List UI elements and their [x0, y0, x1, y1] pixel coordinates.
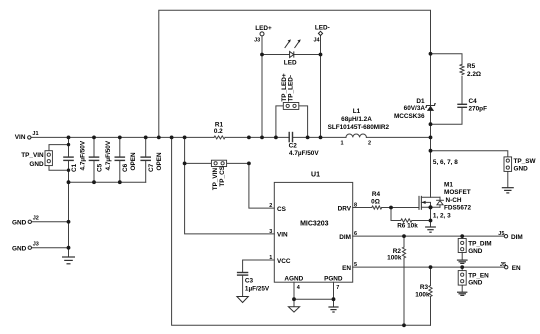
svg-text:TP_SW: TP_SW	[514, 158, 537, 165]
svg-text:LED+: LED+	[255, 25, 272, 32]
svg-text:MCCSK36: MCCSK36	[394, 113, 425, 120]
svg-text:7: 7	[336, 285, 339, 291]
svg-text:3: 3	[269, 229, 272, 235]
svg-text:OPEN: OPEN	[130, 152, 137, 170]
svg-text:TP_LED-: TP_LED-	[287, 75, 294, 102]
svg-text:TP_VIN: TP_VIN	[212, 168, 219, 191]
svg-text:M1: M1	[444, 181, 453, 188]
svg-text:60V/3A: 60V/3A	[404, 105, 426, 112]
svg-text:4.7µF/50V: 4.7µF/50V	[105, 140, 112, 170]
svg-text:C7: C7	[148, 163, 155, 172]
svg-text:C6: C6	[122, 163, 129, 172]
svg-text:DRV: DRV	[338, 205, 352, 212]
svg-text:LED: LED	[284, 59, 297, 66]
svg-text:C5: C5	[96, 163, 103, 172]
svg-text:J3: J3	[254, 38, 260, 44]
svg-text:J1: J1	[32, 131, 38, 137]
svg-text:VIN: VIN	[15, 134, 26, 141]
svg-text:100k: 100k	[387, 255, 402, 262]
svg-text:CS: CS	[277, 206, 287, 213]
svg-text:OPEN: OPEN	[156, 152, 163, 170]
svg-text:TP_VIN: TP_VIN	[21, 152, 44, 159]
svg-text:C3: C3	[245, 278, 254, 285]
svg-text:N-CH: N-CH	[446, 197, 462, 204]
svg-text:5, 6, 7, 8: 5, 6, 7, 8	[433, 159, 458, 166]
svg-text:R3: R3	[420, 284, 429, 291]
svg-text:0Ω: 0Ω	[371, 199, 380, 206]
svg-text:68µH/1.2A: 68µH/1.2A	[341, 116, 372, 123]
svg-text:EN: EN	[342, 265, 351, 272]
svg-text:0.2: 0.2	[214, 128, 223, 135]
svg-text:GND: GND	[468, 279, 483, 286]
svg-text:C4: C4	[469, 98, 478, 105]
svg-text:R4: R4	[372, 191, 381, 198]
svg-text:VIN: VIN	[277, 232, 288, 239]
svg-text:EN: EN	[512, 265, 521, 272]
svg-text:TP_CS: TP_CS	[219, 165, 226, 186]
svg-text:GND: GND	[12, 246, 27, 253]
svg-text:R5: R5	[467, 63, 476, 70]
svg-text:2: 2	[269, 203, 272, 209]
svg-text:MIC3203: MIC3203	[300, 221, 329, 228]
svg-text:GND: GND	[514, 166, 529, 173]
svg-text:PGND: PGND	[324, 275, 343, 282]
svg-text:LED-: LED-	[315, 25, 330, 32]
svg-text:J3: J3	[33, 242, 39, 248]
svg-text:AGND: AGND	[284, 275, 303, 282]
svg-text:C2: C2	[289, 143, 298, 150]
svg-text:DIM: DIM	[339, 234, 351, 241]
svg-text:4.7µF/50V: 4.7µF/50V	[289, 150, 319, 157]
svg-text:GND: GND	[12, 220, 27, 227]
svg-text:L1: L1	[353, 108, 361, 115]
svg-text:J4: J4	[314, 37, 321, 43]
svg-text:4: 4	[297, 285, 301, 291]
svg-text:SLF10145T-680MIR2: SLF10145T-680MIR2	[328, 124, 390, 131]
svg-text:U1: U1	[311, 171, 320, 178]
svg-text:2: 2	[368, 141, 371, 147]
svg-text:D1: D1	[416, 98, 425, 105]
svg-text:TP_EN: TP_EN	[468, 272, 489, 279]
svg-text:VCC: VCC	[277, 258, 291, 265]
svg-text:1, 2, 3: 1, 2, 3	[433, 212, 451, 219]
svg-text:C1: C1	[71, 163, 78, 172]
svg-text:J5: J5	[498, 231, 504, 237]
svg-text:6: 6	[354, 231, 357, 237]
svg-text:1: 1	[340, 141, 343, 147]
svg-text:4.7µF/50V: 4.7µF/50V	[80, 140, 87, 170]
svg-text:100k: 100k	[415, 291, 430, 298]
svg-text:2.2Ω: 2.2Ω	[467, 71, 481, 78]
svg-text:J2: J2	[33, 216, 39, 222]
svg-text:270pF: 270pF	[469, 106, 488, 113]
svg-text:1: 1	[269, 255, 272, 261]
svg-text:GND: GND	[468, 248, 483, 255]
svg-text:5: 5	[354, 262, 357, 268]
svg-text:J5: J5	[500, 262, 506, 268]
svg-text:GND: GND	[29, 161, 44, 168]
svg-text:8: 8	[354, 202, 357, 208]
svg-text:1µF/25V: 1µF/25V	[245, 285, 270, 292]
svg-text:MOSFET: MOSFET	[444, 189, 471, 196]
svg-text:FDS5672: FDS5672	[444, 204, 471, 211]
svg-text:R6 10k: R6 10k	[397, 223, 418, 230]
svg-text:DIM: DIM	[511, 234, 523, 241]
svg-text:TP_DIM: TP_DIM	[468, 241, 491, 248]
